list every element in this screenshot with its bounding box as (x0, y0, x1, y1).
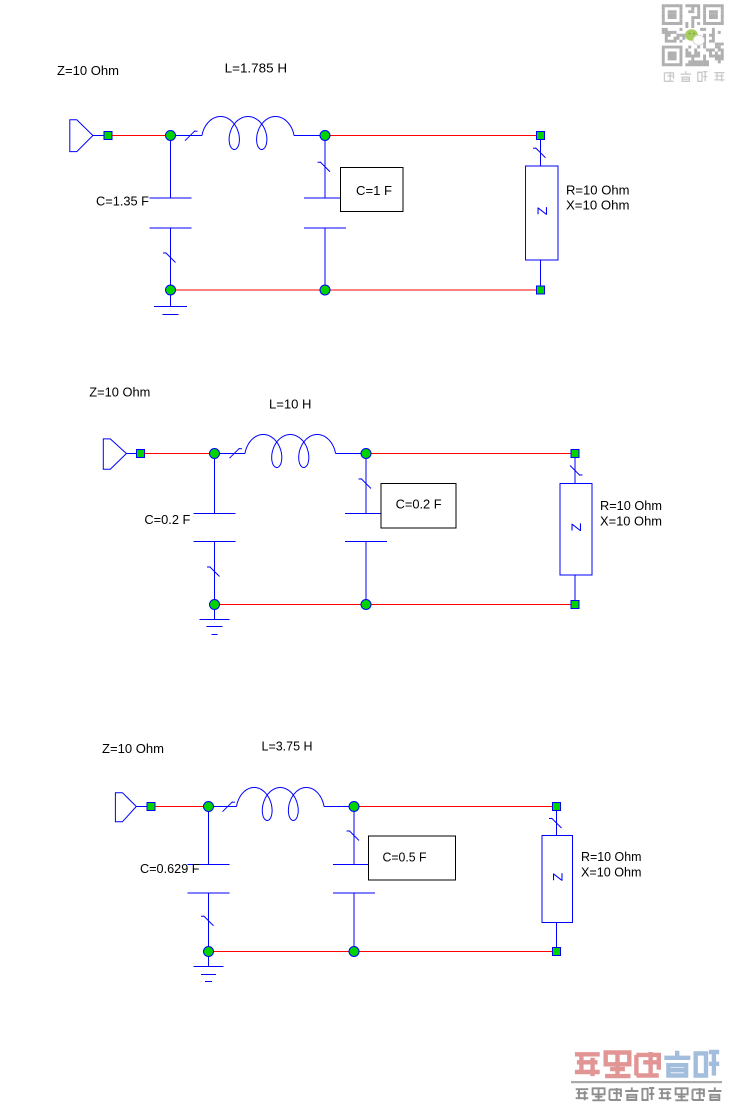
watermark logo bottom right (571, 1051, 722, 1101)
wire bottom ground rail (171, 289, 537, 291)
capacitor C1a value C=1.35 F shunt left (150, 136, 192, 291)
label C1 value (144, 512, 190, 527)
wire node 2 to load (366, 453, 571, 455)
QR caption text (664, 71, 724, 82)
node junction (166, 285, 176, 295)
svg-text:X=10 Ohm: X=10 Ohm (600, 513, 662, 528)
capacitor C2a value C=0.2 F shunt left (194, 454, 236, 605)
svg-text:L=1.785 H: L=1.785 H (225, 61, 288, 76)
svg-text:C=0.2 F: C=0.2 F (144, 512, 190, 527)
svg-text:X=10 Ohm: X=10 Ohm (566, 198, 630, 213)
svg-text:Z=10 Ohm: Z=10 Ohm (89, 385, 150, 400)
wire node 2 to load (354, 806, 553, 808)
port P3 source symbol (115, 793, 155, 822)
svg-text:L=10 H: L=10 H (269, 397, 312, 412)
svg-text:Z=10 Ohm: Z=10 Ohm (102, 741, 164, 756)
load impedance Z2 R=10 Ohm X=10 Ohm (560, 450, 592, 609)
label load R value (566, 182, 630, 197)
label Z=10 Ohm source impedance (102, 741, 164, 756)
node junction (210, 449, 220, 459)
port P2 source symbol (103, 439, 144, 469)
inductor L2 value L=10 H (215, 435, 367, 468)
load impedance Z3 R=10 Ohm X=10 Ohm (542, 803, 573, 956)
svg-text:R=10 Ohm: R=10 Ohm (600, 498, 662, 513)
label load R value (600, 498, 662, 513)
ground symbol (154, 295, 187, 315)
ground symbol (200, 610, 230, 635)
label L value (225, 61, 288, 76)
label C1 value (96, 194, 149, 209)
load impedance Z1 R=10 Ohm X=10 Ohm (526, 132, 559, 295)
node junction (361, 600, 371, 610)
label load X value (581, 864, 642, 879)
wire node 2 to load (325, 135, 537, 137)
node junction (349, 802, 359, 812)
svg-text:Z: Z (568, 523, 584, 532)
capacitor C3b value C=0.5 F shunt right (333, 807, 375, 952)
value box C2 C=0.2 F (381, 484, 456, 529)
node junction (210, 600, 220, 610)
label L value (262, 738, 313, 753)
wire port to node 1 (144, 453, 214, 455)
label load R value (581, 849, 642, 864)
label Z=10 Ohm source impedance (57, 63, 119, 78)
node junction (166, 131, 176, 141)
label Z=10 Ohm source impedance (89, 385, 150, 400)
wire bottom ground rail (215, 604, 572, 606)
svg-text:L=3.75 H: L=3.75 H (262, 738, 313, 753)
svg-text:C=0.629 F: C=0.629 F (140, 861, 200, 876)
node junction (349, 947, 359, 957)
ground symbol (194, 957, 224, 982)
svg-text:Z=10 Ohm: Z=10 Ohm (57, 63, 119, 78)
svg-text:C=1 F: C=1 F (356, 183, 392, 198)
node junction (204, 947, 214, 957)
svg-text:Z: Z (549, 872, 565, 881)
wire port to node 1 (112, 135, 171, 137)
svg-text:X=10 Ohm: X=10 Ohm (581, 864, 642, 879)
capacitor C3a value C=0.629 F shunt left (188, 807, 230, 952)
node junction (320, 131, 330, 141)
node junction (204, 802, 214, 812)
label C1 value (140, 861, 200, 876)
value box C2 C=1 F (341, 168, 404, 212)
capacitor C1b value C=1 F shunt right (304, 136, 346, 291)
wire port to node 1 (155, 806, 209, 808)
decorative QR code watermark top right (662, 4, 724, 66)
svg-text:Z: Z (534, 206, 550, 215)
port P1 source symbol (70, 120, 112, 152)
label load X value (600, 513, 662, 528)
svg-text:C=0.5 F: C=0.5 F (383, 850, 427, 865)
label load X value (566, 198, 630, 213)
value box C2 C=0.5 F (369, 836, 456, 880)
capacitor C2b value C=0.2 F shunt right (345, 454, 387, 605)
svg-text:C=0.2 F: C=0.2 F (396, 497, 442, 512)
svg-text:C=1.35 F: C=1.35 F (96, 194, 149, 209)
svg-text:R=10 Ohm: R=10 Ohm (566, 182, 630, 197)
wire bottom ground rail (209, 951, 553, 953)
svg-text:R=10 Ohm: R=10 Ohm (581, 849, 642, 864)
label L value (269, 397, 312, 412)
node junction (361, 449, 371, 459)
inductor L1 value L=1.785 H (171, 117, 326, 150)
node junction (320, 285, 330, 295)
inductor L3 value L=3.75 H (209, 788, 355, 821)
